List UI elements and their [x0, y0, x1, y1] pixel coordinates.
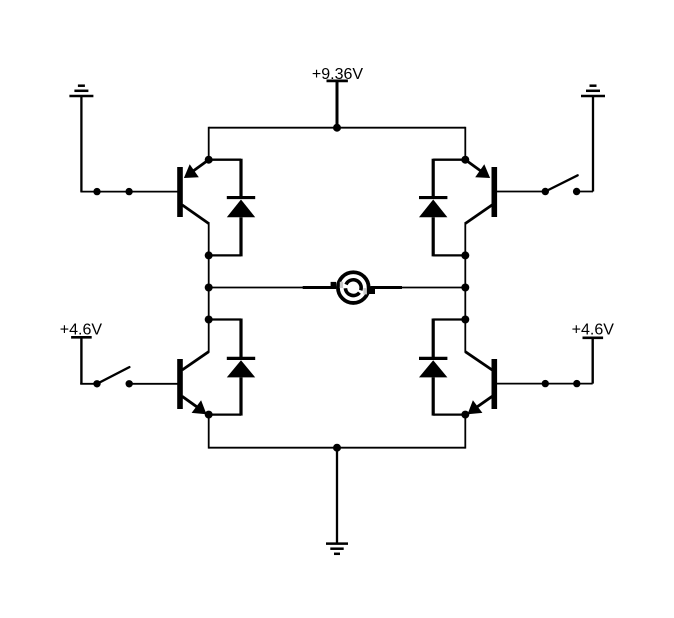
- wire S4 closed segment: [545, 383, 577, 385]
- junction Q2 emitter node: [461, 156, 469, 164]
- junction Q4 emitter node: [461, 411, 469, 419]
- ground (bottom): [326, 448, 348, 554]
- diode D2 (across Q2): [419, 159, 465, 257]
- wire motor lead right: [402, 287, 465, 289]
- power label +9.36V (net +9.36V): [312, 66, 363, 83]
- wire S3 feed: [80, 383, 97, 385]
- wire +4.6V stem right: [592, 338, 594, 384]
- wire top rail drop left: [208, 127, 210, 160]
- diode D1 (across Q1): [209, 159, 256, 257]
- wire Q3 base: [129, 383, 178, 385]
- wire motor lead left: [209, 287, 304, 289]
- wire top rail drop right: [464, 127, 466, 160]
- junction D1 anode node: [205, 251, 213, 259]
- motor M1 lead stub left: [303, 286, 337, 289]
- wire top rail: [209, 127, 466, 129]
- wire Q4 collector drop: [464, 320, 466, 353]
- switch S3 blade (open): [97, 367, 129, 384]
- transistor Q3 (NPN bottom-left): [177, 352, 209, 415]
- switch S2 contact dot: [542, 188, 549, 195]
- wire S2 to ground: [577, 191, 593, 193]
- switch S1 contact dot: [93, 188, 100, 195]
- transistor Q1 (PNP top-left): [177, 160, 209, 224]
- wire Q2 collector drop: [464, 222, 466, 255]
- ground (top left): [69, 86, 93, 192]
- power label +4.6V (left): [60, 321, 103, 338]
- junction Q3 emitter node: [205, 411, 213, 419]
- wire Q4 base: [496, 383, 545, 385]
- transistor Q2 (PNP top-right): [465, 160, 497, 224]
- switch S2 blade (open): [545, 175, 577, 191]
- junction D2 anode node: [461, 251, 469, 259]
- wire Q1 base (left): [80, 191, 178, 193]
- junction bottom center: [333, 444, 341, 452]
- wire Q1 collector drop: [208, 222, 210, 255]
- wire bottom drop left: [208, 415, 210, 449]
- wire bottom rail: [209, 447, 466, 449]
- switch S2 contact dot: [573, 188, 580, 195]
- motor M1 lead stub right: [371, 286, 403, 289]
- wire bottom drop right: [464, 415, 466, 449]
- motor M1 terminal left: [331, 282, 337, 289]
- switch S1 contact dot: [125, 188, 132, 195]
- junction top center: [333, 124, 341, 132]
- junction Q1 emitter node: [205, 156, 213, 164]
- switch S4 contact dot (closed): [542, 380, 549, 387]
- transistor Q4 (NPN bottom-right): [465, 352, 497, 415]
- diode D4 (across Q4): [419, 319, 465, 416]
- switch S3 contact dot: [93, 380, 100, 387]
- ground (top right): [581, 86, 605, 192]
- wire Q3 collector drop: [208, 320, 210, 353]
- wire S4 feed: [577, 383, 593, 385]
- switch S4 contact dot (closed): [573, 380, 580, 387]
- wire +4.6V stem left: [80, 337, 82, 384]
- motor M1 terminal right: [369, 288, 375, 294]
- wire right column to motor node: [464, 255, 466, 319]
- svg-text:+4.6V: +4.6V: [572, 321, 615, 338]
- junction motor right: [461, 284, 469, 292]
- wire Q2 base (right): [496, 191, 545, 193]
- junction Q3 collector node: [205, 316, 213, 324]
- motor M1 body: [338, 272, 369, 303]
- wire +9.36V stem: [336, 81, 339, 128]
- junction motor left: [205, 284, 213, 292]
- wire left column to motor node: [208, 255, 210, 319]
- switch S3 contact dot: [126, 380, 133, 387]
- junction Q4 collector node: [461, 316, 469, 324]
- svg-text:+4.6V: +4.6V: [60, 321, 103, 338]
- power label +4.6V (right): [572, 321, 615, 338]
- diode D3 (across Q3): [209, 319, 256, 416]
